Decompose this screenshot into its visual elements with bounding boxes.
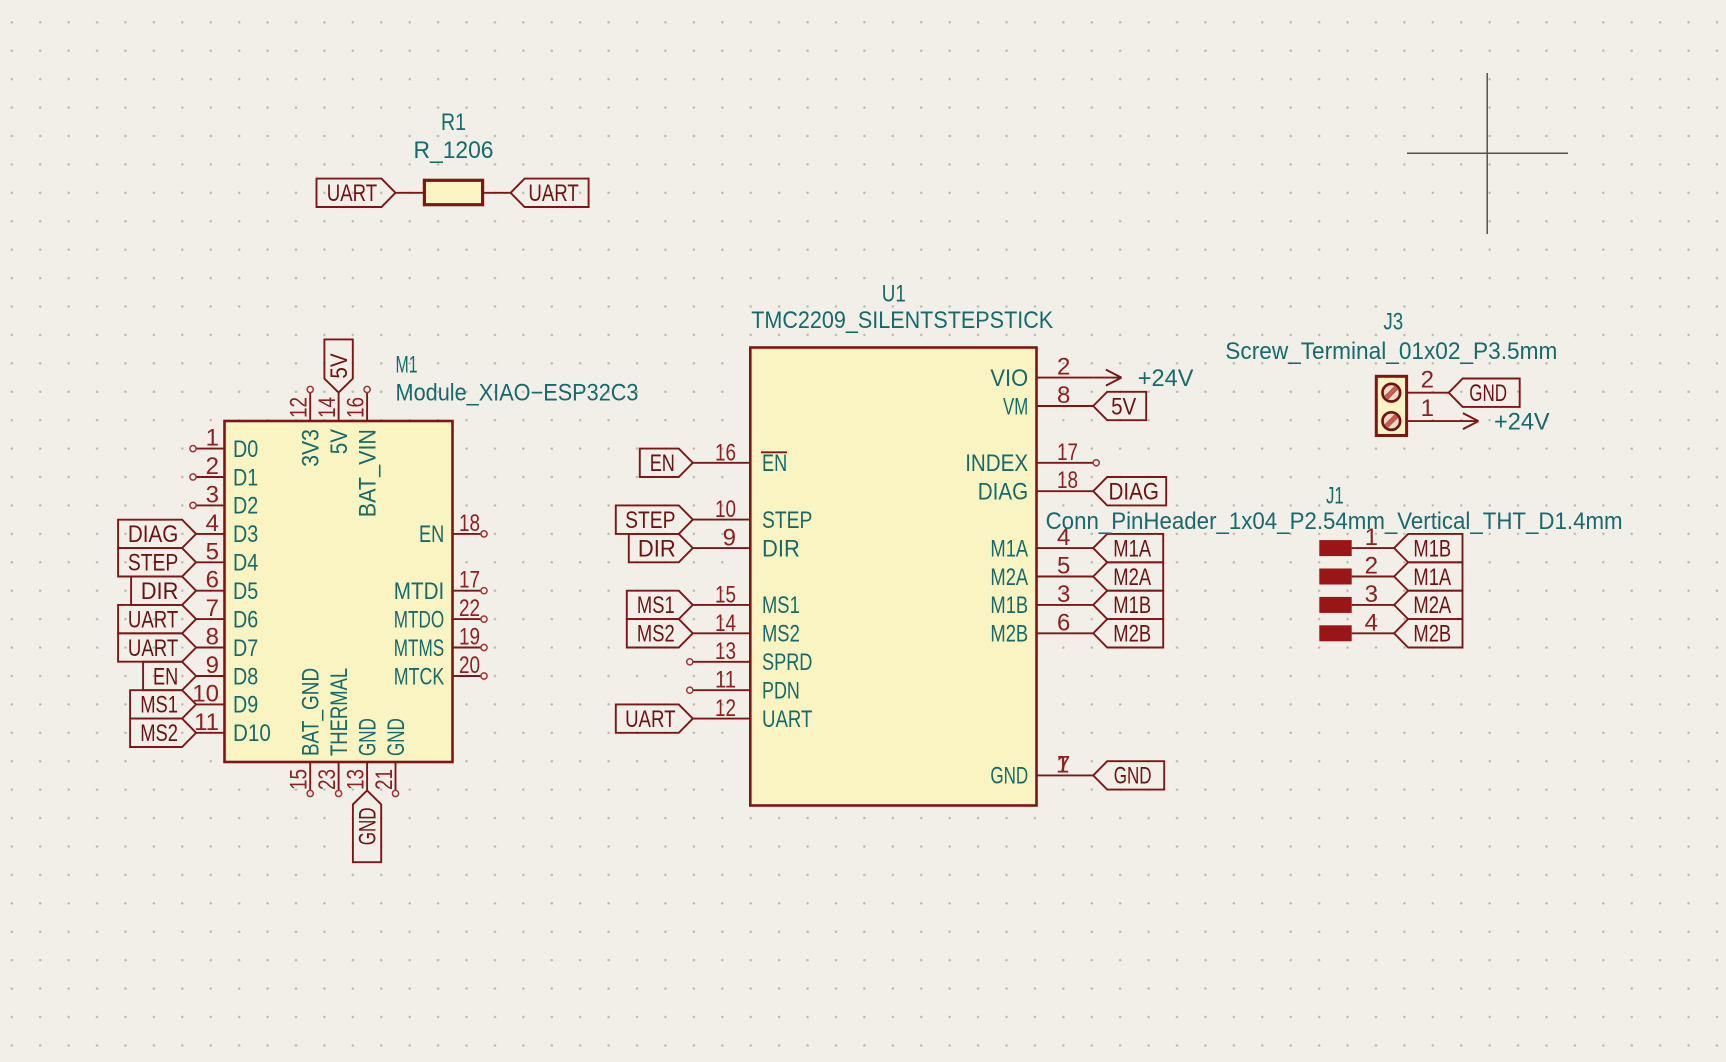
svg-text:3: 3	[1057, 581, 1070, 608]
svg-text:MS1: MS1	[140, 692, 178, 719]
svg-text:M1B: M1B	[1413, 535, 1451, 562]
cursor crosshair	[1407, 152, 1568, 154]
svg-text:D1: D1	[233, 464, 258, 491]
svg-text:GND: GND	[1469, 380, 1507, 407]
M1 pin 14 (5V)	[338, 393, 340, 421]
svg-text:12: 12	[286, 397, 313, 418]
svg-text:5V: 5V	[326, 429, 353, 454]
svg-text:Screw_Terminal_01x02_P3.5mm: Screw_Terminal_01x02_P3.5mm	[1225, 338, 1557, 365]
global label EN (U1 pin 16)	[640, 449, 693, 477]
M1 pin 22 (MTDO)	[453, 618, 481, 620]
svg-text:MS2: MS2	[762, 621, 800, 648]
svg-text:GND: GND	[354, 807, 381, 845]
svg-text:9: 9	[723, 525, 736, 552]
global label UART (left of R1)	[317, 179, 396, 207]
svg-text:1: 1	[206, 425, 219, 452]
global label M2A (U1)	[1093, 562, 1163, 590]
svg-text:M2B: M2B	[990, 621, 1028, 648]
svg-text:STEP: STEP	[128, 550, 178, 577]
svg-text:VM: VM	[1003, 393, 1028, 420]
svg-text:3: 3	[1365, 581, 1378, 608]
U1 pin 10 (STEP)	[693, 519, 751, 521]
M1 pin 10 (D9)	[196, 703, 224, 705]
svg-text:MTCK: MTCK	[394, 663, 444, 690]
svg-text:M1B: M1B	[990, 592, 1028, 619]
svg-text:UART: UART	[128, 635, 179, 662]
svg-text:M2B: M2B	[1413, 621, 1451, 648]
svg-text:20: 20	[459, 652, 480, 679]
M1 pin 15 (BAT_GND)	[309, 762, 311, 790]
svg-text:3V3: 3V3	[298, 429, 325, 467]
svg-text:D8: D8	[233, 663, 258, 690]
global label M1A (J1 pin 2)	[1394, 562, 1462, 590]
svg-text:1: 1	[1056, 751, 1069, 778]
svg-text:11: 11	[715, 667, 736, 694]
svg-text:+24V: +24V	[1138, 365, 1194, 392]
svg-text:5V: 5V	[326, 353, 353, 378]
global label M2B (J1 pin 4)	[1394, 619, 1462, 647]
svg-text:UART: UART	[762, 706, 813, 733]
global label M1B (U1)	[1093, 591, 1163, 619]
U1 pin 13 (SPRD)	[693, 661, 751, 663]
svg-text:15: 15	[286, 769, 313, 790]
svg-text:R_1206: R_1206	[414, 137, 494, 164]
U1 pin 16 (EN)	[693, 462, 751, 464]
svg-text:8: 8	[206, 624, 219, 651]
svg-text:R1: R1	[441, 109, 466, 136]
M1 pin 23 (THERMAL)	[338, 762, 340, 790]
svg-text:D0: D0	[233, 436, 258, 463]
U1 pin 12 (UART)	[693, 718, 751, 720]
svg-text:D6: D6	[233, 606, 258, 633]
svg-text:M1A: M1A	[1413, 564, 1451, 591]
global label DIR (M1 D5)	[131, 577, 196, 605]
svg-text:MTMS: MTMS	[394, 635, 444, 662]
M1 pin 3 (D2)	[196, 504, 224, 506]
svg-text:EN: EN	[650, 450, 675, 477]
M1 pin 1 (D0)	[196, 448, 224, 450]
U1 pin 7 (GND)	[1037, 774, 1094, 776]
svg-text:M2A: M2A	[1413, 592, 1451, 619]
svg-text:2: 2	[206, 453, 219, 480]
svg-text:BAT_VIN: BAT_VIN	[354, 429, 381, 517]
U1 pin 14 (MS2)	[693, 632, 751, 634]
svg-text:16: 16	[715, 439, 736, 466]
svg-text:INDEX: INDEX	[965, 450, 1028, 477]
svg-text:11: 11	[194, 709, 219, 736]
U1 INDEX dangling end	[1093, 460, 1099, 466]
J1 pin 3 pad and wire	[1319, 597, 1351, 613]
svg-text:VIO: VIO	[990, 365, 1028, 392]
svg-text:14: 14	[715, 610, 736, 637]
connector J3 body	[1376, 376, 1406, 435]
global label MS1 (U1 pin 15)	[627, 591, 693, 619]
svg-text:8: 8	[1057, 382, 1070, 409]
global label DIAG (M1 D3)	[118, 520, 196, 548]
global label MS2 (M1 D10)	[130, 719, 196, 747]
svg-text:STEP: STEP	[762, 507, 812, 534]
svg-text:21: 21	[371, 769, 398, 790]
global label UART (M1 D6)	[118, 605, 196, 633]
svg-text:3: 3	[206, 481, 219, 508]
svg-text:U1: U1	[882, 280, 906, 307]
svg-text:9: 9	[206, 652, 219, 679]
M1 pin 4 (D3)	[196, 533, 224, 535]
svg-text:M2B: M2B	[1113, 621, 1151, 648]
M1 pin 2 (D1)	[196, 476, 224, 478]
svg-text:1: 1	[1421, 395, 1434, 422]
svg-text:UART: UART	[327, 180, 378, 207]
svg-text:M1: M1	[396, 351, 418, 378]
svg-text:17: 17	[1057, 439, 1078, 466]
svg-text:STEP: STEP	[625, 507, 675, 534]
module M1 body	[225, 421, 453, 762]
IC U1 body	[750, 348, 1036, 806]
M1 pin 7 (D6)	[196, 618, 224, 620]
svg-text:5: 5	[1057, 553, 1070, 580]
power symbol 5V (global label above M1)	[324, 339, 352, 392]
global label UART (U1 pin 12)	[616, 704, 693, 732]
U1 pin 6 (M2B)	[1037, 632, 1094, 634]
J3 screw 1	[1383, 412, 1401, 430]
svg-text:MS2: MS2	[140, 720, 178, 747]
global label M2A (J1 pin 3)	[1394, 591, 1462, 619]
svg-text:18: 18	[459, 510, 480, 537]
svg-text:J1: J1	[1326, 483, 1344, 510]
M1 pin 5 (D4)	[196, 561, 224, 563]
U1 pin 18 (DIAG)	[1037, 490, 1094, 492]
svg-text:22: 22	[459, 595, 480, 622]
global label DIR (U1 pin 9)	[629, 534, 693, 562]
svg-text:4: 4	[206, 510, 219, 537]
svg-text:EN: EN	[419, 521, 444, 548]
J3 pin 2 wire	[1407, 392, 1449, 394]
svg-text:M1A: M1A	[990, 535, 1028, 562]
global label DIAG (U1 pin 18)	[1093, 477, 1166, 505]
svg-text:D10: D10	[233, 720, 271, 747]
power symbol GND (global label below M1)	[353, 790, 381, 862]
M1 pin 21 (GND)	[395, 762, 397, 790]
svg-text:DIR: DIR	[638, 535, 676, 562]
U1 pin 3 (M1B)	[1037, 604, 1094, 606]
svg-text:M1A: M1A	[1113, 535, 1151, 562]
svg-text:SPRD: SPRD	[762, 649, 812, 676]
svg-text:M2A: M2A	[990, 564, 1028, 591]
global label MS1 (M1 D9)	[130, 690, 196, 718]
svg-text:2: 2	[1057, 354, 1070, 381]
power symbol +24V (J3 pin 1)	[1463, 413, 1479, 421]
M1 pin 20 (MTCK)	[453, 675, 481, 677]
svg-text:MTDI: MTDI	[394, 578, 444, 605]
svg-text:5: 5	[206, 538, 219, 565]
svg-text:+24V: +24V	[1494, 409, 1550, 436]
svg-text:DIAG: DIAG	[978, 479, 1028, 506]
svg-text:4: 4	[1365, 609, 1378, 636]
svg-text:UART: UART	[128, 606, 179, 633]
svg-text:GND: GND	[354, 718, 381, 756]
svg-text:GND: GND	[990, 763, 1028, 790]
global label STEP (U1 pin 10)	[616, 505, 693, 534]
svg-text:D2: D2	[233, 493, 258, 520]
svg-text:MS1: MS1	[637, 592, 675, 619]
svg-text:15: 15	[715, 581, 736, 608]
svg-text:D3: D3	[233, 521, 258, 548]
global label EN (M1 D8)	[143, 662, 196, 690]
M1 pin 6 (D5)	[196, 590, 224, 592]
M1 pin 18 (EN)	[453, 533, 481, 535]
svg-text:D5: D5	[233, 578, 258, 605]
svg-text:19: 19	[459, 624, 480, 651]
M1 pin 12 (3V3)	[309, 393, 311, 421]
svg-text:THERMAL: THERMAL	[326, 668, 353, 756]
resistor R1 body	[424, 180, 482, 204]
J1 pin 4 pad and wire	[1319, 625, 1351, 641]
svg-text:M2A: M2A	[1113, 564, 1151, 591]
svg-text:18: 18	[1057, 467, 1078, 494]
global label MS2 (U1 pin 14)	[627, 619, 693, 647]
U1 pin 15 (MS1)	[693, 604, 751, 606]
svg-text:13: 13	[343, 769, 370, 790]
J3 screw 2	[1383, 384, 1401, 402]
M1 pin 13 (GND)	[366, 762, 368, 790]
U1 pin 11 (PDN)	[693, 689, 751, 691]
svg-text:23: 23	[314, 769, 341, 790]
svg-text:5V: 5V	[1111, 393, 1136, 420]
svg-text:J3: J3	[1383, 308, 1403, 335]
J1 pin 2 pad and wire	[1319, 569, 1351, 585]
U1 pin 17 (INDEX)	[1037, 462, 1094, 464]
svg-text:BAT_GND: BAT_GND	[298, 668, 325, 756]
svg-text:MS2: MS2	[637, 621, 675, 648]
svg-text:10: 10	[715, 496, 736, 523]
svg-text:DIR: DIR	[762, 535, 800, 562]
svg-text:GND: GND	[1114, 763, 1152, 790]
M1 pin 11 (D10)	[196, 732, 224, 734]
svg-text:7: 7	[206, 595, 219, 622]
svg-text:DIAG: DIAG	[128, 521, 178, 548]
M1 pin 9 (D8)	[196, 675, 224, 677]
U1 pin 5 (M2A)	[1037, 576, 1094, 578]
global label STEP (M1 D4)	[118, 548, 196, 576]
global label 5V (U1 VM)	[1093, 392, 1146, 420]
M1 pin 8 (D7)	[196, 647, 224, 649]
svg-text:DIAG: DIAG	[1109, 479, 1159, 506]
M1 pin 19 (MTMS)	[453, 647, 481, 649]
global label GND (U1 pin 7)	[1093, 761, 1164, 789]
svg-text:EN: EN	[153, 663, 178, 690]
svg-text:D7: D7	[233, 635, 258, 662]
svg-text:2: 2	[1365, 553, 1378, 580]
svg-text:MTDO: MTDO	[394, 606, 444, 633]
svg-text:MS1: MS1	[762, 592, 800, 619]
svg-text:D9: D9	[233, 692, 258, 719]
U1 pin 8 (VM)	[1037, 405, 1094, 407]
svg-text:PDN: PDN	[762, 678, 800, 705]
U1 pin 4 (M1A)	[1037, 547, 1094, 549]
svg-text:16: 16	[343, 397, 370, 418]
power symbol +24V (U1 VIO)	[1093, 377, 1121, 379]
svg-text:14: 14	[314, 397, 341, 418]
svg-text:1: 1	[1365, 524, 1378, 551]
svg-text:6: 6	[206, 567, 219, 594]
U1 pin 9 (DIR)	[693, 547, 751, 549]
global label UART (M1 D7)	[118, 633, 196, 661]
global label GND (J3 pin 2)	[1449, 379, 1520, 407]
svg-text:13: 13	[715, 638, 736, 665]
svg-text:UART: UART	[528, 180, 579, 207]
U1 pin 2 (VIO)	[1037, 377, 1094, 379]
svg-text:6: 6	[1057, 609, 1070, 636]
svg-text:EN: EN	[762, 450, 787, 477]
global label M1B (J1 pin 1)	[1394, 534, 1462, 562]
svg-text:12: 12	[715, 695, 736, 722]
wire	[396, 192, 425, 194]
M1 pin 16 (BAT_VIN)	[366, 393, 368, 421]
svg-text:UART: UART	[625, 706, 676, 733]
wire	[483, 192, 511, 194]
svg-text:GND: GND	[383, 718, 410, 756]
svg-text:TMC2209_SILENTSTEPSTICK: TMC2209_SILENTSTEPSTICK	[751, 307, 1053, 334]
svg-text:M1B: M1B	[1113, 592, 1151, 619]
J3 pin 1 wire	[1407, 420, 1479, 422]
svg-text:Module_XIAO−ESP32C3: Module_XIAO−ESP32C3	[396, 380, 639, 407]
global label M1A (U1)	[1093, 534, 1163, 562]
svg-text:DIR: DIR	[141, 578, 179, 605]
svg-text:17: 17	[459, 567, 480, 594]
svg-text:D4: D4	[233, 550, 258, 577]
svg-text:Conn_PinHeader_1x04_P2.54mm_Ve: Conn_PinHeader_1x04_P2.54mm_Vertical_THT…	[1046, 508, 1623, 535]
svg-text:2: 2	[1421, 367, 1434, 394]
global label UART (right of R1)	[511, 179, 589, 207]
J1 pin 1 pad and wire	[1319, 540, 1351, 556]
M1 pin 17 (MTDI)	[453, 590, 481, 592]
global label M2B (U1)	[1093, 619, 1163, 647]
